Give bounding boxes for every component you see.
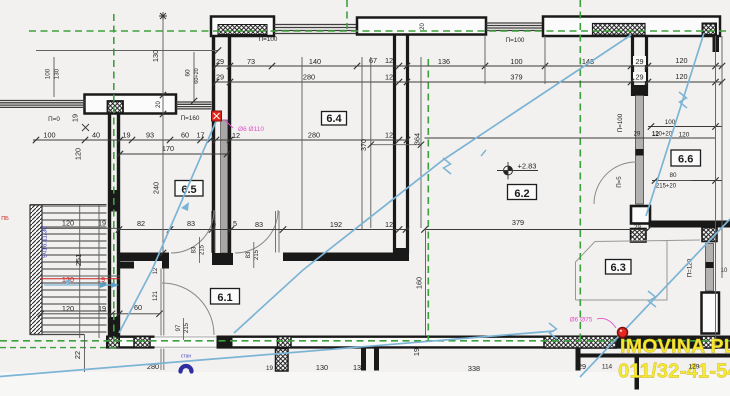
blue break zigzag (443, 158, 451, 174)
svg-text:IMOVINA PLUS: IMOVINA PLUS (620, 336, 730, 358)
hatched pier below band (276, 349, 289, 372)
svg-text:379: 379 (510, 73, 522, 82)
green dashed bottom-2 (0, 347, 119, 349)
svg-text:12: 12 (153, 267, 159, 274)
svg-text:29: 29 (634, 132, 641, 138)
dim row D (170) (118, 153, 229, 155)
svg-text:стан: стан (181, 354, 192, 360)
svg-text:60+20: 60+20 (194, 68, 200, 83)
hatch square bottom-2 (278, 337, 292, 348)
svg-text:82: 82 (137, 219, 145, 228)
room 6.3 thin outline (576, 240, 701, 300)
svg-text:120: 120 (675, 72, 687, 81)
svg-text:12: 12 (385, 56, 393, 65)
svg-text:22: 22 (73, 351, 82, 359)
svg-text:192: 192 (330, 220, 342, 229)
hatch square right (702, 228, 717, 242)
svg-text:379: 379 (512, 218, 524, 227)
svg-text:29: 29 (578, 362, 586, 371)
stair top line (30, 204, 107, 206)
room label 6.4 (322, 112, 347, 126)
svg-text:130: 130 (54, 68, 61, 79)
svg-text:129: 129 (689, 364, 700, 371)
svg-text:29: 29 (635, 73, 643, 82)
door arc room 6.4 (235, 210, 278, 253)
blue scratch line G (0, 331, 554, 377)
wall W4 (631, 36, 634, 96)
stub below H4a (118, 262, 135, 269)
svg-text:Ø6 Ø110: Ø6 Ø110 (238, 126, 264, 133)
svg-text:60: 60 (134, 303, 142, 312)
green dashed boundary horizontal top (29, 30, 730, 32)
svg-text:011/32-41-54: 011/32-41-54 (618, 360, 730, 383)
svg-text:215: 215 (184, 322, 190, 333)
insulation hatch top-left (218, 25, 267, 35)
svg-text:П=0: П=0 (48, 116, 60, 123)
window top-2 (486, 23, 543, 31)
svg-text:40: 40 (92, 131, 100, 140)
svg-text:6.2: 6.2 (514, 188, 529, 200)
svg-text:140: 140 (309, 57, 321, 66)
wall H4a (118, 253, 163, 262)
svg-text:29: 29 (635, 57, 643, 66)
partition P2 (П=120) (706, 244, 714, 292)
right corner stub (713, 36, 720, 52)
svg-text:120: 120 (675, 56, 687, 65)
svg-text:80: 80 (669, 172, 677, 179)
svg-text:17: 17 (196, 131, 204, 140)
dim row G (41, 313, 160, 315)
hatch square bottom-1 (134, 337, 150, 348)
svg-text:170: 170 (162, 144, 174, 153)
blue measuring arrow (44, 284, 117, 286)
svg-text:29: 29 (216, 73, 224, 82)
blue scratch line B (646, 33, 704, 216)
dim row F (red) (40, 275, 120, 277)
svg-text:130: 130 (316, 363, 328, 372)
svg-text:97: 97 (176, 324, 182, 331)
H4a end cap (162, 253, 169, 269)
green dashed bottom-1 (0, 340, 730, 342)
dim row A (top) (214, 65, 723, 67)
svg-text:60: 60 (185, 69, 192, 77)
svg-text:67: 67 (369, 56, 377, 65)
hatch square left block (108, 101, 124, 113)
partition P1 (П=100) (636, 96, 644, 205)
right row y138 (425, 137, 716, 139)
arrow cross markers (159, 12, 167, 20)
room label 6.6 (671, 150, 701, 166)
blue break zigzag (648, 291, 656, 307)
dim row E (middle) (119, 229, 409, 231)
svg-text:160: 160 (415, 277, 424, 289)
room label 6.3 (606, 260, 632, 275)
dim row stairs y228 (40, 227, 119, 229)
svg-text:370: 370 (359, 139, 368, 151)
dim row B (214, 81, 723, 83)
wall W1 left vertical (108, 114, 111, 337)
svg-text:6.4: 6.4 (326, 113, 342, 125)
svg-text:12: 12 (385, 73, 393, 82)
svg-text:338: 338 (468, 364, 480, 373)
mid tie line 370/364 (371, 144, 421, 146)
svg-text:29: 29 (216, 57, 224, 66)
wall W3 center vertical (393, 35, 396, 254)
black segment right of red dot (616, 336, 730, 349)
svg-text:60: 60 (181, 131, 189, 140)
svg-text:100: 100 (510, 57, 522, 66)
green dashed vertical V5 (579, 0, 581, 345)
room label 6.2 (508, 185, 537, 200)
blue section mark 6 (181, 366, 192, 372)
hatch square top-right corner (703, 24, 717, 36)
blue scratch line C (580, 219, 730, 377)
block B4 (outlined) (631, 206, 650, 224)
svg-text:280: 280 (308, 131, 320, 140)
window left (П=0) (0, 101, 86, 108)
svg-text:П=160: П=160 (181, 115, 200, 122)
svg-text:93: 93 (146, 131, 154, 140)
horizontal helper line top-left (36, 50, 218, 52)
svg-text:120: 120 (679, 132, 690, 139)
red pipe square (212, 111, 222, 121)
wall H5 (649, 221, 730, 228)
window П=160 (176, 102, 212, 109)
svg-text:П=100: П=100 (506, 37, 525, 44)
svg-text:215: 215 (200, 244, 206, 255)
svg-text:100: 100 (43, 131, 55, 140)
blue scratch line A (234, 35, 631, 333)
door arc room 6.1 entry (162, 283, 214, 335)
red pipe dot (618, 328, 628, 338)
svg-text:121: 121 (153, 290, 159, 301)
svg-text:6.1: 6.1 (217, 292, 232, 304)
svg-text:83: 83 (192, 246, 198, 253)
svg-text:120: 120 (62, 304, 74, 313)
green dashed vertical V3 (346, 0, 348, 29)
svg-text:20: 20 (420, 23, 426, 30)
stair treads (42, 206, 107, 332)
svg-text:251: 251 (74, 254, 83, 266)
blue break zigzag (679, 92, 687, 108)
hatch square below B4 (631, 229, 647, 243)
window top-1 (274, 25, 357, 34)
exterior wall top-right block (543, 17, 720, 37)
duct shaft fill (221, 120, 228, 253)
svg-text:6.3: 6.3 (611, 262, 626, 274)
staircase hatched wall (30, 205, 42, 335)
svg-text:ПБ: ПБ (1, 216, 9, 222)
insulation hatch top-right (593, 24, 646, 36)
svg-text:73: 73 (247, 57, 255, 66)
svg-text:П=100: П=100 (259, 36, 278, 43)
dim row C (left) (33, 139, 409, 141)
svg-text:19: 19 (122, 131, 130, 140)
svg-text:П=5: П=5 (616, 176, 623, 188)
door threshold bottom (gap) (155, 337, 217, 347)
svg-text:130: 130 (151, 50, 160, 62)
svg-text:120: 120 (74, 148, 83, 160)
blue break zigzag (549, 323, 557, 339)
wall H4b (283, 253, 409, 262)
svg-text:114: 114 (602, 364, 613, 371)
svg-text:5: 5 (233, 219, 237, 228)
bottom wall band (106, 336, 730, 349)
left wall block (85, 95, 177, 114)
room label 6.1 (211, 289, 240, 305)
green dashed vertical V1 (113, 14, 115, 345)
exterior wall top-center block (357, 18, 486, 35)
hatch square bottom-right (702, 336, 717, 348)
pier bottom-right (702, 293, 720, 334)
svg-text:12: 12 (385, 131, 393, 140)
svg-text:5: 5 (212, 219, 216, 228)
shaft wall W2 (212, 36, 215, 253)
svg-text:19: 19 (266, 365, 274, 372)
door arc room 6.5 (171, 210, 214, 253)
blue arrowhead on E (181, 202, 189, 211)
room label 6.5 (175, 181, 203, 197)
door arc room 6.6 (594, 162, 636, 204)
svg-text:120: 120 (62, 219, 74, 228)
svg-text:20: 20 (156, 101, 162, 108)
svg-text:Ø6 Ø75: Ø6 Ø75 (570, 317, 593, 324)
svg-text:19: 19 (412, 348, 421, 356)
svg-text:215+20: 215+20 (656, 184, 677, 190)
svg-text:83: 83 (246, 251, 252, 258)
black segment below shaft (217, 336, 233, 349)
level mark +2.83 (504, 166, 513, 175)
svg-text:6.6: 6.6 (678, 154, 693, 166)
svg-text:215: 215 (254, 249, 260, 260)
insulation hatch bottom (long) (544, 336, 616, 348)
svg-text:+2.83: +2.83 (518, 162, 537, 171)
blue scratch line E (119, 119, 217, 333)
svg-text:83: 83 (255, 220, 263, 229)
svg-text:280: 280 (303, 73, 315, 82)
svg-text:9ч16.11/30: 9ч16.11/30 (42, 226, 49, 258)
lower-floor wall stubs (361, 349, 366, 371)
exterior wall top-left block (211, 17, 274, 37)
green dashed vertical V4 (427, 59, 429, 345)
svg-text:83: 83 (187, 219, 195, 228)
wall W2 bottom cap (212, 253, 233, 265)
svg-text:19: 19 (71, 114, 80, 122)
stair bottom line (31, 334, 85, 336)
svg-text:13: 13 (353, 363, 361, 372)
svg-text:240: 240 (152, 182, 161, 194)
door jamb lines room 6.1 (160, 269, 162, 371)
svg-text:П=100: П=100 (617, 113, 624, 132)
svg-text:120+20: 120+20 (652, 132, 673, 138)
right side dim rows (648, 126, 722, 128)
svg-text:12: 12 (385, 220, 393, 229)
svg-text:136: 136 (438, 57, 450, 66)
svg-text:364: 364 (413, 133, 422, 145)
svg-text:100: 100 (45, 68, 52, 79)
